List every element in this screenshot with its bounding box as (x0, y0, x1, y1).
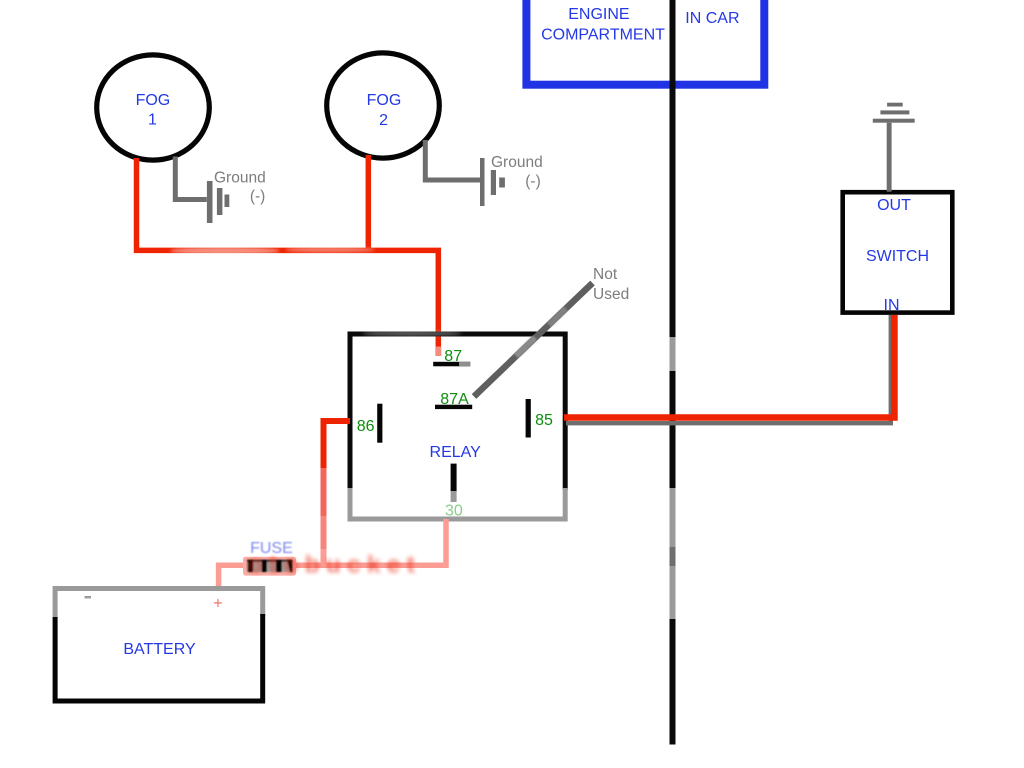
relay pin 30 (445, 464, 463, 520)
fog lamp 1 (97, 55, 210, 160)
relay pin 87A (435, 391, 472, 409)
svg-text:1: 1 (148, 112, 157, 129)
svg-text:COMPARTMENT: COMPARTMENT (541, 27, 665, 44)
svg-text:otobucket: otobucket (248, 552, 421, 579)
battery box (55, 589, 263, 702)
svg-text:+: + (213, 595, 223, 613)
svg-text:Not: Not (593, 266, 618, 283)
svg-text:2: 2 (379, 112, 388, 129)
svg-text:(-): (-) (525, 173, 541, 190)
not-used diagonal pointer to pin 87A (474, 266, 629, 397)
switch box (843, 192, 953, 314)
relay box (350, 331, 565, 519)
svg-text:87A: 87A (440, 391, 469, 408)
firewall partition line (670, 0, 676, 745)
svg-text:RELAY: RELAY (430, 444, 482, 461)
earth ground symbol above switch (873, 103, 915, 192)
svg-text:Ground: Ground (491, 154, 543, 171)
pink faded wire: battery + through fuse to relay pin 30 (219, 519, 446, 586)
svg-text:(-): (-) (250, 188, 266, 205)
relay pin 86 (357, 404, 383, 443)
relay label (430, 444, 482, 461)
ground symbol for fog 2 (425, 140, 542, 206)
fog lamp 2 (327, 53, 440, 158)
svg-text:IN CAR: IN CAR (685, 10, 739, 27)
gray under-wire from pin 85 to switch (566, 315, 891, 423)
svg-text:30: 30 (445, 503, 463, 520)
svg-text:OUT: OUT (877, 197, 911, 214)
svg-text:SWITCH: SWITCH (866, 248, 929, 265)
relay pin 85 (526, 399, 553, 438)
ground symbol for fog 1 (175, 157, 265, 224)
svg-text:Used: Used (593, 286, 629, 303)
fuse (243, 540, 421, 579)
svg-text:85: 85 (535, 412, 553, 429)
svg-text:BATTERY: BATTERY (123, 641, 196, 658)
svg-text:86: 86 (357, 418, 375, 435)
svg-text:IN: IN (884, 297, 900, 314)
svg-text:87: 87 (444, 348, 462, 365)
svg-text:FOG: FOG (136, 92, 171, 109)
red supply wire from fog lamps to relay pin 87 (137, 155, 442, 356)
svg-text:ENGINE: ENGINE (568, 6, 629, 23)
svg-text:FOG: FOG (367, 92, 402, 109)
svg-text:Ground: Ground (214, 169, 266, 186)
red wire from relay pin 86 down to fused feed (324, 421, 351, 567)
engine compartment / in car boundary box (526, 0, 764, 85)
red wire from pin 85 to switch IN (564, 315, 894, 418)
relay pin 87 (433, 348, 470, 366)
